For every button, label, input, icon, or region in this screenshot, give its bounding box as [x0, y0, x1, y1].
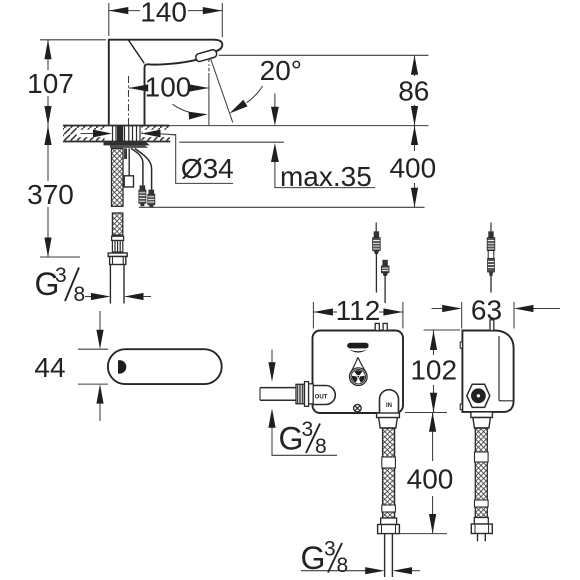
svg-text:3: 3 — [302, 418, 314, 441]
svg-text:G: G — [279, 421, 304, 457]
svg-text:8: 8 — [315, 435, 327, 458]
svg-text:G: G — [301, 540, 326, 576]
svg-text:107: 107 — [27, 68, 74, 99]
svg-text:86: 86 — [398, 75, 429, 106]
svg-text:100: 100 — [145, 71, 192, 102]
svg-text:370: 370 — [27, 179, 74, 210]
svg-text:112: 112 — [336, 295, 381, 326]
svg-text:400: 400 — [407, 464, 454, 495]
svg-text:GROHE: GROHE — [347, 344, 369, 350]
svg-text:20°: 20° — [260, 55, 302, 86]
svg-text:63: 63 — [471, 294, 502, 325]
svg-text:OUT: OUT — [315, 395, 328, 401]
svg-text:400: 400 — [389, 153, 436, 184]
svg-text:3: 3 — [55, 264, 67, 287]
svg-text:8: 8 — [74, 283, 86, 306]
svg-text:IN: IN — [386, 403, 392, 409]
svg-text:140: 140 — [140, 0, 187, 28]
svg-text:8: 8 — [337, 554, 349, 577]
svg-text:3: 3 — [324, 538, 336, 561]
svg-text:Ø34: Ø34 — [181, 153, 234, 184]
svg-text:102: 102 — [410, 354, 457, 385]
svg-text:44: 44 — [34, 352, 65, 383]
svg-text:max.35: max.35 — [280, 161, 372, 192]
